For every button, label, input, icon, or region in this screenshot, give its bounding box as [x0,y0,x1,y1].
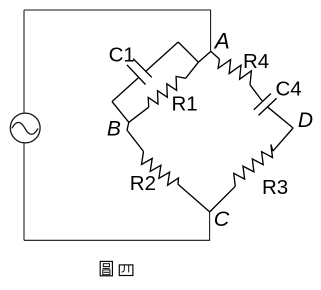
resistor R1 [148,76,185,107]
svg-text:B: B [107,118,121,141]
wire: R2 to C [178,184,210,212]
wire: A to P2 [198,51,210,62]
svg-text:R2: R2 [130,172,156,195]
wire: R4 to C4 [250,85,262,101]
wire: left upper [23,10,25,113]
svg-text:R3: R3 [262,176,288,199]
svg-text:A: A [213,29,230,54]
capacitor C1 [127,65,146,85]
wire: P1 to L (C1 stub) [112,102,129,123]
resistor R2 [142,152,179,186]
svg-text:C4: C4 [276,77,302,100]
resistor R4 [218,59,251,85]
svg-text:C1: C1 [109,44,135,67]
wire: C1 to T [145,42,178,72]
wire: C4 to D [267,107,293,128]
wire: R3 to D [273,128,293,151]
svg-text:R1: R1 [172,92,198,115]
wire: C to R3 [210,186,236,212]
wire: A to R4 [211,51,220,59]
wire: R1 to P1 [129,107,149,122]
svg-text:C: C [214,207,230,231]
wire: B to R2 [127,130,144,151]
wire: T to P2 [178,42,198,62]
caption: 四 (four) [119,265,133,276]
wire: left lower [23,143,25,240]
wire: P1 to B [127,122,129,130]
svg-text:R4: R4 [243,50,269,73]
wire: L to C1 [112,77,139,101]
wire: bottom [24,212,210,240]
AC source V1 [10,113,40,143]
svg-text:D: D [298,109,313,132]
wire: outer top [24,10,211,51]
resistor R3 [234,145,273,187]
caption: 圖 (Figure) [100,261,112,275]
wire: P2 to R1 [186,62,199,78]
capacitor C4 [254,94,271,110]
